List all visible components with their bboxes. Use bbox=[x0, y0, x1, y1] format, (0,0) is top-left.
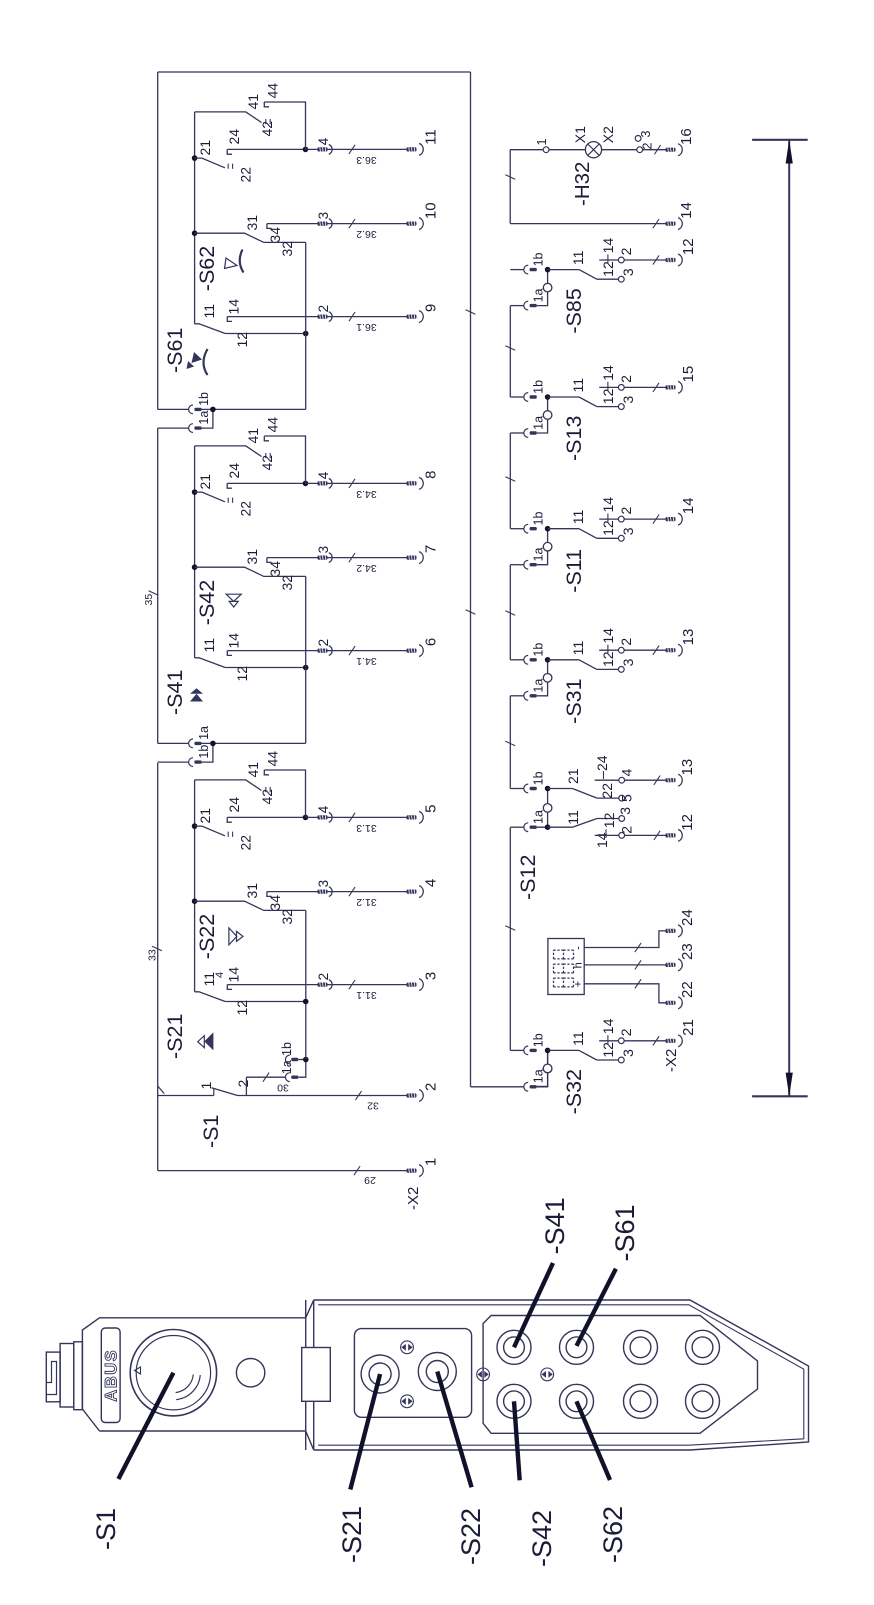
contact circle 3 bbox=[618, 535, 624, 541]
rail row2 segment bbox=[509, 306, 511, 397]
pendant button -S62 bbox=[560, 1384, 594, 1418]
terminal hook 44 -S62 bbox=[264, 102, 269, 107]
nc marks 42 bbox=[265, 787, 267, 792]
wire break bbox=[354, 1166, 360, 1175]
svg-text:30: 30 bbox=[277, 1081, 289, 1093]
contact circle 3 bbox=[618, 1057, 624, 1063]
connector -S85 1b drop bbox=[510, 269, 524, 271]
svg-text:24: 24 bbox=[594, 755, 610, 771]
svg-text:X2: X2 bbox=[600, 126, 616, 143]
svg-text:13: 13 bbox=[679, 759, 696, 776]
node -S12 1b bbox=[545, 786, 551, 792]
rail row2 segment bbox=[509, 827, 511, 1050]
contact circle 3 bbox=[619, 816, 625, 822]
rail jog at S1 bbox=[158, 1086, 165, 1094]
rail segment S41 to S61 connector bbox=[157, 428, 159, 743]
terminal -X2:5 pin bbox=[407, 815, 417, 819]
terminal 14 pin bbox=[666, 517, 676, 521]
svg-text:2: 2 bbox=[619, 826, 635, 834]
wire 24 -S41 bbox=[227, 482, 305, 484]
contact -S12 21-22 bbox=[572, 789, 597, 799]
pendant e-stop inner bbox=[136, 1336, 210, 1410]
symbol -S21 up bbox=[198, 1036, 205, 1048]
wire 1a jumper bbox=[202, 409, 213, 428]
svg-text:-S41: -S41 bbox=[540, 1197, 570, 1254]
svg-text:5: 5 bbox=[423, 805, 440, 813]
svg-text:-X2: -X2 bbox=[405, 1187, 422, 1210]
pendant horn button bbox=[236, 1359, 264, 1387]
nc marks 42 bbox=[265, 453, 267, 458]
wire 34-output -S62 bbox=[267, 223, 407, 225]
connector pin 4 bbox=[318, 815, 328, 819]
pendant body narrow left bbox=[100, 1430, 306, 1432]
rail right edge bbox=[158, 71, 471, 73]
wire break bbox=[653, 515, 659, 524]
contact -S13 11-12 bbox=[579, 397, 597, 407]
dimension arrow left bbox=[786, 1073, 793, 1097]
wire break bbox=[505, 477, 515, 482]
node -S11 1b bbox=[545, 526, 551, 532]
connector -S31 1a drop bbox=[510, 695, 524, 697]
svg-text:23: 23 bbox=[679, 943, 696, 960]
connector -S11 1a drop bbox=[510, 564, 524, 566]
rail row2 segment bbox=[509, 433, 511, 529]
wire lamp U top bbox=[509, 150, 511, 224]
contact -S31 11-12 bbox=[579, 660, 597, 670]
svg-text:1a: 1a bbox=[197, 726, 211, 740]
svg-text:34: 34 bbox=[267, 561, 283, 577]
svg-text:1: 1 bbox=[423, 1158, 440, 1166]
wire break bbox=[349, 887, 355, 896]
wire 44 -S42 bbox=[264, 436, 305, 483]
wire break bbox=[653, 219, 659, 228]
display digit 8 bbox=[553, 964, 555, 973]
symbol -S41 bbox=[190, 694, 203, 702]
svg-text:36.1: 36.1 bbox=[356, 321, 377, 333]
svg-text:3: 3 bbox=[620, 396, 636, 404]
svg-text:34.3: 34.3 bbox=[356, 488, 377, 500]
connector 1a jumper bbox=[299, 1060, 306, 1078]
svg-text:-S61: -S61 bbox=[163, 328, 187, 373]
switch -S1 blade bbox=[212, 1088, 238, 1096]
svg-text:-X2: -X2 bbox=[663, 1049, 680, 1072]
dimension arrow right bbox=[786, 140, 793, 164]
contact circle 3 bbox=[618, 276, 624, 282]
terminal hook 34 -S42 bbox=[267, 558, 272, 563]
wire break bbox=[349, 553, 355, 562]
svg-text:34.1: 34.1 bbox=[356, 655, 377, 667]
connector -S32 jumper bbox=[537, 1050, 548, 1086]
symbol -S61 bbox=[187, 361, 195, 369]
svg-text:+: + bbox=[573, 981, 585, 987]
contact circle 2 bbox=[618, 647, 624, 653]
svg-text:10: 10 bbox=[423, 202, 440, 219]
leader -S1 bbox=[118, 1373, 173, 1479]
wire break bbox=[349, 145, 355, 154]
rail row2 segment bbox=[509, 565, 511, 660]
svg-text:2: 2 bbox=[618, 638, 634, 646]
terminal 22 pin bbox=[666, 1001, 676, 1005]
svg-text:12: 12 bbox=[234, 332, 250, 348]
terminal 13 pin bbox=[666, 778, 676, 782]
connector -S32 1b drop bbox=[510, 1049, 524, 1051]
svg-text:1a: 1a bbox=[532, 1069, 546, 1083]
switch -S1 wire bbox=[158, 1095, 214, 1097]
connector -S13 jumper bbox=[537, 397, 548, 433]
pendant button -S41 bbox=[497, 1330, 531, 1364]
svg-text:36.2: 36.2 bbox=[356, 228, 377, 240]
wire S1 to connector bbox=[245, 1077, 247, 1095]
svg-text:1b: 1b bbox=[532, 512, 546, 526]
wire 12 stub bbox=[597, 818, 619, 820]
terminal hook 44 -S22 bbox=[264, 770, 269, 775]
contact -S22 31-32 bbox=[195, 901, 306, 910]
connector -S11 1b drop bbox=[510, 528, 524, 530]
wire break 33 bbox=[152, 946, 162, 951]
connector -S12 1b drop bbox=[510, 788, 524, 790]
connector ring -S32 bbox=[543, 1064, 552, 1073]
svg-text:33: 33 bbox=[147, 949, 159, 961]
connector 1a drop bbox=[246, 1076, 285, 1078]
node -S12 1a bbox=[545, 824, 551, 830]
connector -S13 1b drop bbox=[510, 396, 524, 398]
nc marks 22 bbox=[227, 164, 229, 169]
svg-text:1a: 1a bbox=[532, 679, 546, 693]
terminal -X2:10 pin bbox=[407, 222, 417, 226]
svg-text:3: 3 bbox=[620, 1049, 636, 1057]
wire 12 -S61 bbox=[225, 333, 306, 335]
wire break 35 bbox=[149, 591, 159, 596]
svg-text:-S1: -S1 bbox=[91, 1508, 121, 1550]
rail segment S1-left bbox=[157, 1097, 159, 1171]
wire display 22 bbox=[584, 984, 665, 1003]
svg-text:8: 8 bbox=[423, 471, 440, 479]
svg-text:-S11: -S11 bbox=[562, 549, 586, 593]
svg-text:1b: 1b bbox=[532, 643, 546, 657]
svg-text:14: 14 bbox=[226, 299, 242, 315]
svg-text:36.3: 36.3 bbox=[356, 154, 377, 166]
wire break bbox=[653, 255, 659, 264]
terminal hook 24 -S61 bbox=[227, 149, 232, 154]
connector 1b stub bbox=[299, 1059, 306, 1061]
terminal hook 24 -S41 bbox=[227, 483, 232, 488]
terminal 21 pin bbox=[666, 1039, 676, 1043]
wire -S12 24 output bbox=[625, 779, 666, 781]
svg-text:1a: 1a bbox=[280, 1060, 294, 1074]
svg-text:31.1: 31.1 bbox=[356, 989, 377, 1001]
wire -S32 11 feed bbox=[548, 1049, 579, 1051]
divider 12|14 bbox=[607, 382, 609, 391]
svg-text:6: 6 bbox=[423, 638, 440, 646]
terminal -X2:2 pin bbox=[407, 1093, 417, 1097]
svg-text:12: 12 bbox=[234, 666, 250, 682]
leader -S42 bbox=[514, 1401, 520, 1480]
terminal hook 14 -S21 bbox=[227, 985, 232, 990]
divider 22|24 bbox=[603, 771, 605, 779]
wire -S31 output bbox=[624, 649, 665, 651]
pendant button -S61 bbox=[560, 1330, 594, 1364]
wire 14-output -S21 bbox=[227, 984, 406, 986]
svg-text:21: 21 bbox=[680, 1019, 697, 1036]
svg-text:2: 2 bbox=[618, 1028, 634, 1036]
svg-text:11: 11 bbox=[201, 638, 217, 653]
svg-text:1b: 1b bbox=[197, 745, 211, 759]
svg-text:-S12: -S12 bbox=[516, 855, 540, 900]
wire 14 stub bbox=[599, 649, 618, 651]
divider 12|14 bbox=[607, 645, 609, 654]
svg-text:16: 16 bbox=[678, 128, 695, 145]
group feed bus bbox=[305, 242, 307, 409]
pendant e-stop outer bbox=[130, 1330, 216, 1416]
connector -S12 jumper bbox=[537, 789, 548, 828]
svg-text:1: 1 bbox=[535, 139, 549, 146]
pendant icon pair4 bbox=[541, 1368, 554, 1381]
wire -S13 11 feed bbox=[548, 396, 579, 398]
svg-text:11: 11 bbox=[570, 250, 586, 265]
dimension cap left bbox=[752, 1095, 808, 1097]
svg-text:14: 14 bbox=[600, 628, 616, 644]
svg-text:34: 34 bbox=[267, 227, 283, 243]
connector pin 4 bbox=[318, 147, 328, 151]
node -S13 1b bbox=[545, 394, 551, 400]
svg-text:31: 31 bbox=[244, 549, 260, 565]
wire 12 stub bbox=[597, 278, 619, 280]
terminal -X2:11 pin bbox=[407, 147, 417, 151]
contact circle 2 bbox=[618, 516, 624, 522]
wire 34-output -S22 bbox=[267, 891, 407, 893]
pendant button btn7 bbox=[686, 1330, 720, 1364]
svg-text:2: 2 bbox=[618, 507, 634, 515]
wire lamp feed corner bbox=[510, 149, 543, 151]
svg-text:14: 14 bbox=[600, 497, 616, 513]
svg-text:1a: 1a bbox=[532, 416, 546, 430]
svg-text:3: 3 bbox=[620, 658, 636, 666]
contact -S32 11-12 bbox=[579, 1050, 597, 1060]
svg-text:22: 22 bbox=[238, 167, 254, 183]
svg-text:24: 24 bbox=[679, 909, 696, 926]
wire 24-output -S21 bbox=[306, 816, 407, 818]
svg-text:31.3: 31.3 bbox=[356, 822, 377, 834]
svg-text:3: 3 bbox=[620, 527, 636, 535]
terminal 13 pin bbox=[666, 648, 676, 652]
wire break bbox=[635, 960, 641, 969]
svg-text:3: 3 bbox=[423, 972, 440, 980]
svg-text:22: 22 bbox=[238, 835, 254, 851]
svg-text:21: 21 bbox=[197, 808, 213, 824]
contact -S62 41-42 bbox=[195, 112, 262, 123]
symbol -S22 down bbox=[229, 928, 237, 945]
svg-text:-S42: -S42 bbox=[527, 1510, 557, 1567]
svg-text:-S41: -S41 bbox=[163, 670, 187, 715]
svg-text:3: 3 bbox=[620, 268, 636, 276]
wire break bbox=[654, 145, 660, 154]
pendant seam diagonals bbox=[306, 1300, 314, 1318]
node bus-31 -S62 bbox=[192, 230, 198, 236]
svg-text:21: 21 bbox=[197, 140, 213, 156]
pendant icon pair1 bbox=[401, 1341, 414, 1354]
wire break bbox=[505, 175, 515, 180]
connector pin 2 bbox=[318, 983, 328, 987]
connector pin 2 bbox=[318, 315, 328, 319]
svg-text:21: 21 bbox=[197, 474, 213, 490]
terminal hook 14 -S61 bbox=[227, 317, 232, 322]
svg-text:1b: 1b bbox=[532, 771, 546, 785]
svg-text:14: 14 bbox=[600, 238, 616, 254]
contact circle 2 bbox=[637, 147, 643, 153]
leader -S62 bbox=[577, 1401, 611, 1480]
svg-text:31: 31 bbox=[244, 883, 260, 899]
leader -S21 bbox=[350, 1374, 380, 1490]
wire 44 -S22 bbox=[264, 770, 305, 817]
svg-text:-S13: -S13 bbox=[562, 416, 586, 461]
svg-text:44: 44 bbox=[265, 83, 281, 99]
rail segment S1 to S41 connector bbox=[157, 763, 159, 1097]
connector -S31 jumper bbox=[537, 660, 548, 696]
svg-text:4: 4 bbox=[423, 879, 440, 887]
connector ring -S13 bbox=[543, 411, 552, 420]
wire display 24 bbox=[584, 931, 665, 948]
contact -S85 11-12 bbox=[579, 270, 597, 280]
contact -S42 31-32 bbox=[195, 567, 306, 576]
wire break bbox=[654, 831, 660, 840]
divider 14|12 bbox=[605, 829, 607, 838]
node bus-21 -S61 bbox=[192, 155, 198, 161]
contact circle 3 bbox=[635, 136, 641, 142]
svg-text:2: 2 bbox=[618, 375, 634, 383]
svg-text:42: 42 bbox=[259, 121, 275, 137]
wire 14-output -S61 bbox=[227, 316, 406, 318]
connector -S85 jumper bbox=[537, 270, 548, 306]
pendant icon pair2 bbox=[401, 1395, 414, 1408]
connector 1b rail drop bbox=[158, 761, 189, 763]
connector ring -S85 bbox=[543, 283, 552, 292]
wire 34-output -S42 bbox=[267, 557, 407, 559]
wire 14-output -S41 bbox=[227, 650, 406, 652]
svg-text:35: 35 bbox=[143, 594, 155, 606]
terminal -X2:7 pin bbox=[407, 556, 417, 560]
svg-text:13: 13 bbox=[680, 629, 697, 646]
terminal -X2:1 pin bbox=[407, 1169, 417, 1173]
svg-text:-S21: -S21 bbox=[163, 1014, 187, 1059]
wire 24-output -S41 bbox=[306, 482, 407, 484]
symbol -S62 bbox=[225, 258, 238, 269]
node bus-21 -S21 bbox=[192, 823, 198, 829]
svg-text:22: 22 bbox=[679, 981, 696, 998]
pendant button -S42 bbox=[497, 1384, 531, 1418]
svg-text:4: 4 bbox=[316, 137, 331, 145]
wire link jumper bbox=[537, 1050, 548, 1086]
connector pin 3 bbox=[318, 222, 328, 226]
divider 12|14 bbox=[607, 514, 609, 523]
connector 1b drop bbox=[158, 408, 189, 410]
contact circle 1 bbox=[543, 147, 549, 153]
svg-text:14: 14 bbox=[226, 967, 242, 983]
rail bottom edge bbox=[470, 72, 472, 1087]
display digit 8 bbox=[553, 978, 555, 987]
pendant panel buttons bbox=[483, 1316, 757, 1434]
wire 24 -S21 bbox=[227, 816, 305, 818]
terminal 15 pin bbox=[666, 385, 676, 389]
wire 1a feed bbox=[202, 742, 306, 744]
svg-text:7: 7 bbox=[423, 545, 440, 553]
svg-text:9: 9 bbox=[423, 304, 440, 312]
wire 14 stub bbox=[595, 834, 619, 836]
terminal hook 44 -S42 bbox=[264, 436, 269, 441]
svg-text:3: 3 bbox=[639, 131, 653, 138]
contact circle 2 bbox=[618, 257, 624, 263]
wire break 30 bbox=[263, 1073, 269, 1082]
contact -S41 11-12 bbox=[195, 658, 226, 668]
wire break bbox=[349, 312, 355, 321]
contact -S12 11-12 bbox=[572, 819, 597, 828]
svg-text:1b: 1b bbox=[532, 252, 546, 266]
wire -S85 output bbox=[624, 259, 665, 261]
wire 44 -S62 bbox=[264, 102, 305, 149]
terminal 14 pin bbox=[666, 222, 676, 226]
wire 1b jumper bbox=[202, 743, 213, 762]
terminal -X2:8 pin bbox=[407, 481, 417, 485]
connector pin 2 bbox=[318, 649, 328, 653]
svg-text:ABUS: ABUS bbox=[103, 1349, 121, 1402]
wire 12 -S41 bbox=[225, 667, 306, 669]
contact -S61 21-22 bbox=[195, 158, 225, 168]
svg-text:12: 12 bbox=[680, 238, 697, 255]
leader -S61 bbox=[577, 1269, 616, 1346]
terminal hook 24 -S21 bbox=[227, 817, 232, 822]
svg-text:2: 2 bbox=[423, 1083, 440, 1091]
svg-text:14: 14 bbox=[226, 633, 242, 649]
contact circle 2 bbox=[618, 385, 624, 391]
wire lamp to 16 bbox=[643, 149, 666, 151]
pendant icon pair3 bbox=[477, 1368, 490, 1381]
svg-text:41: 41 bbox=[245, 762, 261, 778]
svg-text:14: 14 bbox=[680, 498, 697, 515]
svg-text:-S1: -S1 bbox=[199, 1115, 223, 1148]
nc marks 42 bbox=[265, 119, 267, 124]
wire break bbox=[505, 346, 515, 351]
connector -S31 1b drop bbox=[510, 659, 524, 661]
wire -S13 output bbox=[624, 386, 665, 388]
pendant button btn8 bbox=[686, 1384, 720, 1418]
wire 24 stub bbox=[595, 779, 619, 781]
connector pin 3 bbox=[318, 556, 328, 560]
wire -S12 11 feed bbox=[548, 826, 573, 828]
wire -S12 21 feed bbox=[548, 788, 573, 790]
connector ring -S11 bbox=[543, 542, 552, 551]
svg-text:2: 2 bbox=[316, 305, 331, 313]
wire 12 -S21 bbox=[225, 1001, 306, 1003]
contact circle 3 bbox=[618, 667, 624, 673]
node -S32 1b bbox=[545, 1048, 551, 1054]
wire break bbox=[653, 1036, 659, 1045]
connector -S13 1a drop bbox=[510, 432, 524, 434]
svg-text:11: 11 bbox=[570, 509, 586, 524]
svg-text:-H32: -H32 bbox=[571, 162, 594, 206]
group feed bus bbox=[305, 576, 307, 743]
svg-text:14: 14 bbox=[678, 202, 695, 219]
contact -S42 41-42 bbox=[195, 446, 262, 457]
connector -S85 1a drop bbox=[510, 305, 524, 307]
svg-text:11: 11 bbox=[201, 304, 217, 319]
svg-text:4: 4 bbox=[316, 805, 331, 813]
nc marks 22 bbox=[227, 498, 229, 503]
connector ring -S12 bbox=[543, 804, 552, 813]
svg-text:32: 32 bbox=[367, 1100, 379, 1112]
svg-text:14: 14 bbox=[600, 1018, 616, 1034]
svg-text:-S61: -S61 bbox=[610, 1204, 640, 1261]
terminal -X2:9 pin bbox=[407, 315, 417, 319]
terminal -X2:6 pin bbox=[407, 649, 417, 653]
